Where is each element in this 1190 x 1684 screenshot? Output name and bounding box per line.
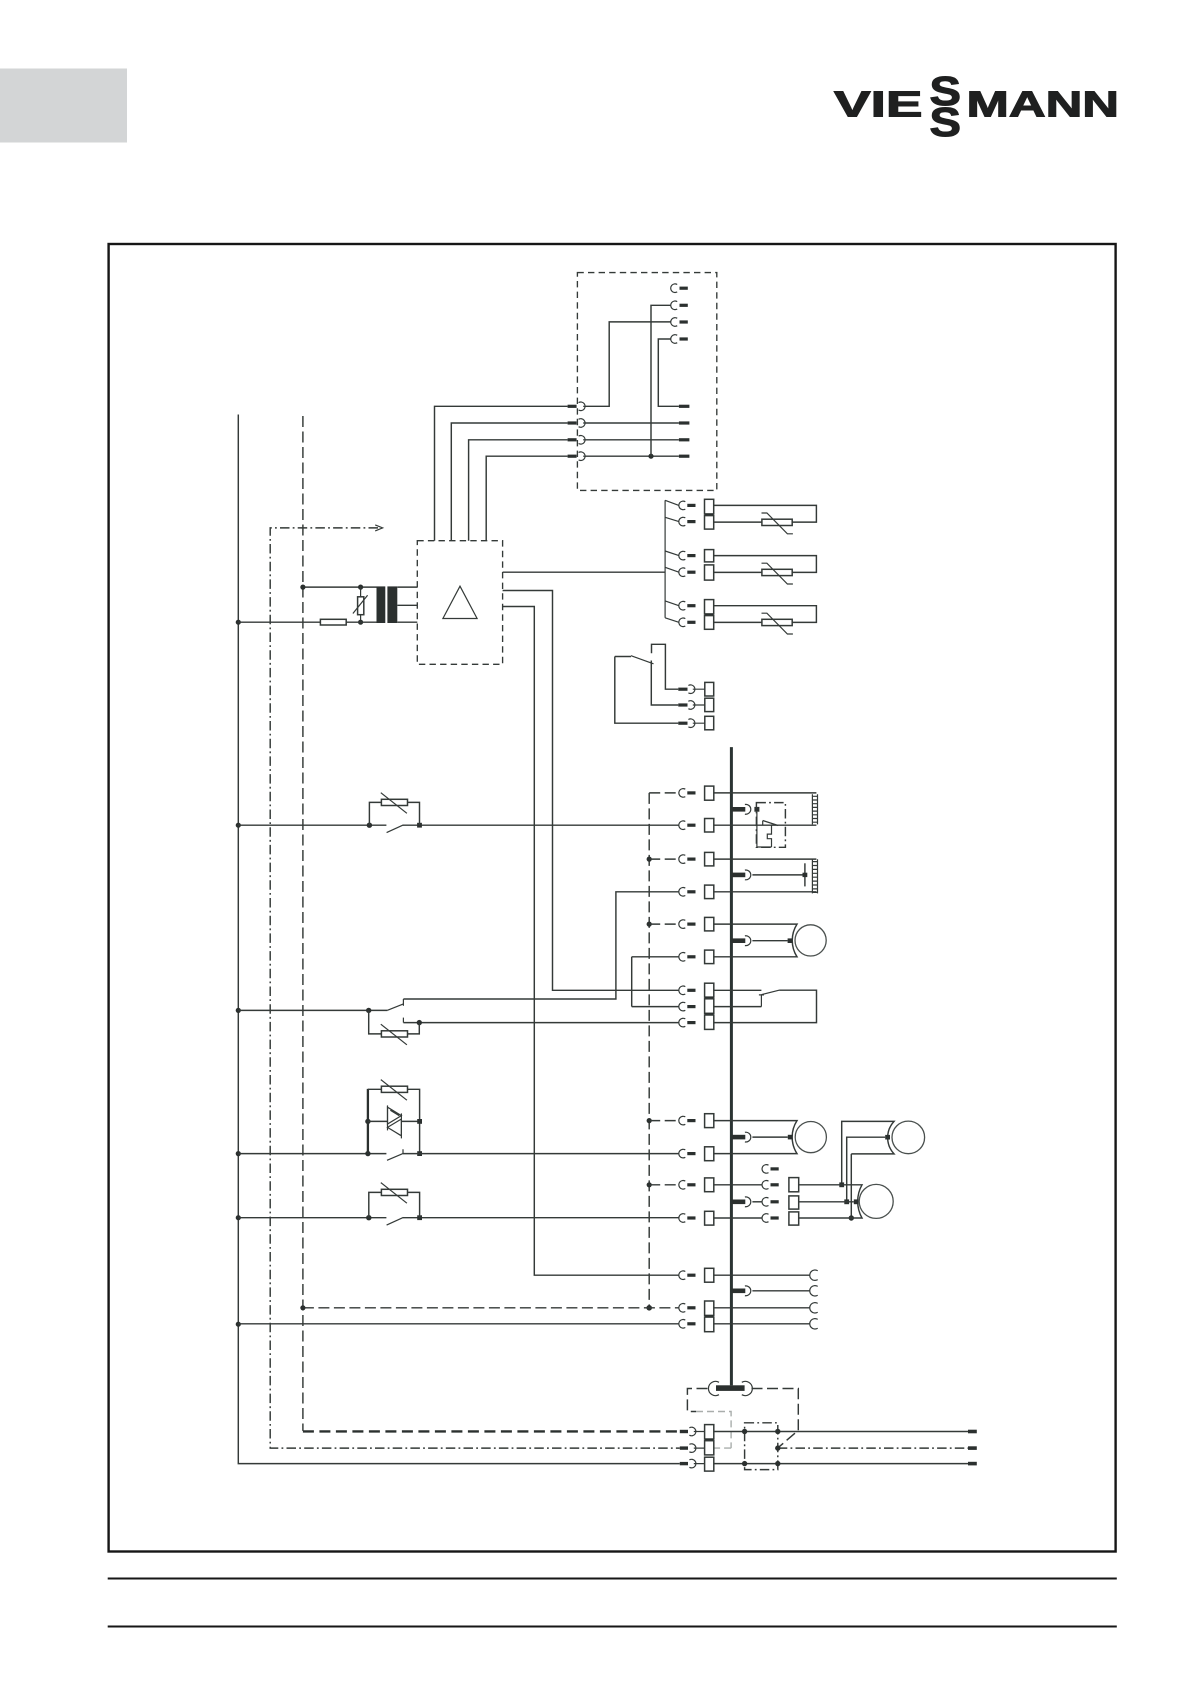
bus pin ignition (732, 873, 746, 878)
node dashed col row A (647, 857, 652, 862)
S2 node (366, 1008, 371, 1013)
rowB terminal (705, 885, 714, 899)
svg-text:S: S (930, 99, 962, 145)
gray accessory path (696, 1412, 731, 1449)
rowK socket right (762, 1198, 768, 1207)
rowD wire from loop (632, 957, 679, 1007)
bus end bar (716, 1385, 745, 1391)
relay pin 3 (678, 722, 687, 725)
wire transformer to control unit (397, 587, 417, 622)
sep FG (705, 1013, 714, 1015)
X8 top socket 1 (671, 284, 677, 293)
rowM dashed wire (303, 1307, 679, 1309)
rowR2 plug arc (810, 1286, 818, 1296)
fuse F1 (320, 619, 346, 625)
sensor socket 1b (679, 517, 685, 526)
rowC terminal (705, 917, 714, 931)
comm box node P right (775, 1429, 780, 1434)
sensor socket 2a (679, 551, 685, 560)
row3 terminal (705, 819, 714, 833)
rowN socket (679, 1320, 685, 1329)
rowK link wire (752, 1201, 762, 1203)
rowG terminal (705, 1015, 714, 1029)
control unit triangle (443, 586, 477, 618)
wire bus to burner motor (752, 1136, 787, 1138)
bus socket ignition (745, 870, 751, 880)
rowR1 plug arc (810, 1270, 818, 1280)
rowQ pin (680, 1446, 688, 1449)
node dashed col row H (647, 1118, 652, 1123)
bus socket rowR2 (745, 1286, 751, 1296)
rowJ junction square (839, 1182, 844, 1187)
pumpB junction square (854, 1199, 859, 1204)
wire bus to pump1 (752, 940, 787, 942)
sensor terminal 3b (705, 616, 714, 630)
wire stage2 contact to rowB (403, 892, 678, 999)
bus pin rowK (732, 1200, 746, 1205)
relay terminal 3 (705, 716, 714, 730)
main bus vertical (730, 747, 733, 1385)
rowA socket (679, 855, 685, 864)
sensor NTC1 diagonal (762, 513, 793, 534)
sensor socket 1a (679, 501, 685, 510)
rowJ dashed stub (649, 1184, 679, 1186)
X8 right pin 2 (679, 421, 690, 424)
triac varistor diagonal (381, 1080, 407, 1101)
node L1 row N (236, 1322, 241, 1327)
footer rule 2 (108, 1626, 1117, 1628)
S3 square right (417, 1215, 422, 1220)
S1 node left (367, 823, 372, 828)
bus socket limiter (745, 804, 751, 814)
rowM node left (300, 1305, 305, 1310)
node L1 burner switch (236, 823, 241, 828)
sensor terminal 1a (705, 499, 714, 514)
pump contact vertical (759, 995, 764, 1007)
spare socket (762, 1165, 768, 1174)
triac mid wire (368, 1120, 420, 1122)
pumpA mid feed (847, 1137, 886, 1202)
sensor socket 2b (679, 568, 685, 577)
node L1 stage switch (236, 1008, 241, 1013)
rowC socket (679, 920, 685, 929)
wire mains bottom (238, 621, 376, 623)
comm box node R right (775, 1461, 780, 1466)
rowH dashed stub (649, 1120, 679, 1122)
rowH socket (679, 1116, 685, 1125)
S3 varistor diagonal (381, 1183, 407, 1204)
wire to electrode (752, 874, 805, 876)
X8 wire socket2 straight (585, 422, 679, 424)
X8 top socket 2 (671, 301, 677, 310)
Viessmann logo text VIE (834, 68, 1119, 145)
S2 varistor body (381, 1031, 407, 1037)
burner motor circle (795, 1122, 826, 1153)
rowM socket (679, 1304, 685, 1313)
rowR end pin (968, 1462, 977, 1466)
S3 varistor loop (369, 1192, 420, 1217)
rowF terminal (705, 999, 714, 1014)
sensor NTC1 loop (714, 505, 817, 522)
sensor terminal 2a (705, 550, 714, 562)
rowM wire right (714, 1307, 810, 1309)
sensor NTC3 loop (714, 606, 817, 623)
ignition electrode (804, 863, 806, 886)
row3 socket (679, 821, 685, 830)
bus dash-dot left column with arrow (270, 528, 680, 1448)
pump contact lever (761, 990, 779, 995)
sensor terminal 2b (705, 565, 714, 580)
X8 left socket 1 (568, 405, 577, 408)
sensor terminal sep 1 (705, 514, 714, 516)
rowR terminal (705, 1457, 714, 1471)
rowR1 socket (679, 1271, 685, 1280)
S1 lever (387, 825, 404, 833)
sensor terminal 1b (705, 516, 714, 530)
limiter junction square (754, 807, 759, 812)
transformer T1 secondary bar (387, 586, 397, 623)
pump1 junction square (788, 938, 793, 943)
wire control to plug pin3 (469, 440, 568, 541)
X8 wire socket4 straight (585, 455, 679, 457)
rowG socket (679, 1018, 685, 1027)
rowK wire to pumpB (799, 1201, 854, 1203)
bus L1 solid left column (238, 415, 680, 1464)
relay terminal 2 (705, 698, 714, 711)
dashed wire bus end right (752, 1389, 799, 1448)
rowI wire (403, 1153, 679, 1155)
triac node left low (365, 1151, 370, 1156)
wire control to remote row (503, 607, 679, 1276)
S2 varistor diagonal (381, 1024, 407, 1045)
S2 upper contact (402, 999, 404, 1006)
triac switch lever (387, 1149, 403, 1160)
transformer T1 primary bar (377, 586, 386, 623)
rowN plug arc (810, 1319, 818, 1329)
rowE socket (679, 986, 685, 995)
rowR pin (680, 1462, 688, 1465)
rowR2 wire right (752, 1290, 809, 1292)
stage switch S2 wire (238, 1009, 387, 1011)
rowJ wire to pumpB (799, 1185, 862, 1218)
rowL socket right (762, 1214, 768, 1223)
sep EF (705, 997, 714, 999)
rowJ terminal right (789, 1178, 799, 1192)
node dashed col row M (646, 1305, 652, 1311)
diagram border frame (109, 244, 1116, 1552)
rowD socket (679, 953, 685, 962)
rowQ socket (689, 1444, 704, 1453)
X8 left socket 2 (568, 421, 577, 424)
rowP socket (689, 1427, 704, 1436)
bus dashed heavy row P (303, 1430, 680, 1432)
X8 top socket 4 (671, 335, 677, 344)
rowB socket (679, 888, 685, 897)
sensor NTC2 diagonal (762, 563, 793, 584)
bus pin limiter (732, 807, 746, 812)
triac bar right (400, 1113, 402, 1138)
wire control to pump contact E (503, 591, 679, 991)
relay K1 common (615, 657, 679, 724)
rowN wire (238, 1323, 678, 1325)
wire rowB to igniter bottom (714, 891, 817, 893)
rowR socket (689, 1459, 704, 1468)
rowP pin (680, 1430, 688, 1433)
rowL socket left (679, 1214, 685, 1223)
rowF socket (679, 1002, 685, 1011)
S1 node right (417, 823, 422, 828)
limiter switch tick (762, 821, 764, 825)
relay K1 throw mid (651, 661, 678, 706)
svg-text:VIE: VIE (834, 84, 923, 125)
connector X8 dashed box top (577, 273, 716, 491)
node dashed col transformer (300, 585, 305, 590)
rowR1 wire right (714, 1274, 810, 1276)
sensor terminal 3a (705, 600, 714, 614)
pumpA vertical feed (842, 1121, 894, 1218)
node varistor top (358, 585, 363, 590)
rowR wire right (714, 1463, 968, 1465)
svg-text:MANN: MANN (967, 84, 1120, 125)
X8 top socket 3 (671, 318, 677, 327)
sensor socket 3b (679, 618, 685, 627)
X8 left socket 4 (568, 455, 577, 458)
node L1 pump switch (236, 1215, 241, 1220)
rowJ terminal left (705, 1178, 714, 1192)
sensor NTC2 loop (714, 556, 817, 573)
wire row1 to heater top (714, 792, 817, 794)
S2 lower wire rowG (403, 1022, 678, 1024)
limiter internal leg (757, 812, 772, 847)
S3 lever (387, 1217, 404, 1225)
pumpB motor circle (859, 1184, 893, 1218)
burner motor triac block wire (238, 1153, 386, 1155)
rowR1 terminal (705, 1268, 714, 1282)
bus socket rowK (745, 1197, 751, 1207)
rowQ terminal (705, 1441, 714, 1455)
sensor rail vertical (664, 500, 666, 618)
heater bar 1 (812, 794, 817, 824)
rowK junction square (844, 1199, 849, 1204)
bus socket pump1 (745, 936, 751, 946)
node dashed col row C (647, 922, 652, 927)
bus end socket left (708, 1381, 719, 1395)
rowP terminal (705, 1425, 714, 1439)
comm dash-dot box (745, 1423, 778, 1470)
X8 right pin 3 (679, 438, 690, 441)
arrow head (375, 525, 382, 531)
node L1 transformer (236, 620, 241, 625)
row1 socket (679, 789, 685, 798)
rowJ socket right (762, 1181, 768, 1190)
wire control to sensor rail (503, 571, 665, 573)
triac square mid (417, 1119, 422, 1124)
pump contact rowE wire (714, 989, 762, 991)
node dashed col row J (647, 1182, 652, 1187)
relay pin 2 (678, 703, 687, 706)
node varistor bottom (358, 620, 363, 625)
dashed wire bus end left (687, 1389, 707, 1412)
bus pin burner motor (732, 1135, 746, 1140)
row1 terminal (705, 786, 714, 800)
wire rowA to igniter top (714, 858, 817, 860)
wire mains top to transformer (303, 586, 376, 588)
triac left leg (367, 1089, 369, 1154)
wire control to plug pin4 (486, 456, 567, 541)
rowI terminal (705, 1147, 714, 1161)
relay K1 throw up hook (652, 644, 679, 689)
rowQ wire right (778, 1447, 968, 1449)
comm box node R left (742, 1461, 747, 1466)
X8 right pin 4 (679, 455, 690, 458)
rowD terminal (705, 950, 714, 964)
rowP end pin (968, 1430, 977, 1434)
wire control to plug pin1 (435, 406, 568, 540)
triac triangle up (388, 1107, 402, 1124)
S1 varistor diagonal (381, 793, 407, 814)
triac triangle down (388, 1119, 402, 1136)
X8 node socket4 (648, 454, 653, 459)
bus pin pump1 (732, 938, 746, 943)
bus dashed right column (648, 793, 650, 1308)
triac square low (417, 1151, 422, 1156)
sensor NTC2 body (762, 569, 792, 575)
S1 varistor loop (369, 802, 419, 825)
sensor NTC3 diagonal (762, 613, 793, 634)
rowH terminal (705, 1114, 714, 1128)
rowJ wire crossing bus (714, 1184, 762, 1186)
triac bar left (387, 1105, 389, 1130)
wire row3 through limiter box to heater bottom (714, 824, 817, 826)
varistor R1 vertical (360, 587, 362, 622)
rowM plug arc (810, 1303, 818, 1313)
rowL junction dot (849, 1215, 854, 1220)
pumpA motor circle (892, 1121, 925, 1154)
rowN terminal (705, 1317, 714, 1332)
S1 varistor body (381, 799, 407, 805)
node L1 triac row (236, 1151, 241, 1156)
pump1 motor circle (795, 925, 826, 956)
rowI socket (679, 1149, 685, 1158)
S2 varistor loop (369, 1010, 420, 1034)
X8 wire socket1 to top3 (585, 322, 671, 406)
X8 wire socket3 straight (585, 439, 679, 441)
relay K1 lever (631, 656, 654, 664)
bus pin rowR2 (732, 1289, 746, 1294)
X8 wire top4 branch (658, 339, 679, 406)
S2 node lower (417, 1020, 422, 1025)
burner motor junction square (788, 1135, 793, 1140)
rowL terminal left (705, 1211, 714, 1225)
rowL terminal right (789, 1212, 799, 1225)
triac node left mid (365, 1119, 370, 1124)
row1 dashed stub (649, 792, 679, 794)
bus end socket right (742, 1381, 753, 1395)
burner motor bracket (714, 1121, 797, 1154)
rowA dashed stub (649, 858, 679, 860)
sensor NTC3 body (762, 619, 792, 625)
gray corner tab (0, 69, 127, 143)
wire control to plug pin2 (451, 423, 567, 541)
rowA terminal (705, 852, 714, 866)
X8 left socket 3 (568, 438, 577, 441)
comm box node P left (742, 1429, 747, 1434)
sensor rail taps (665, 500, 679, 622)
pump contact common loop rowG (714, 990, 817, 1022)
pump1 bracket wires (714, 924, 797, 957)
relay terminal 1 (705, 682, 714, 696)
triac varistor body (381, 1086, 407, 1092)
rowK terminal right (789, 1196, 799, 1209)
bus dashed left column (302, 416, 304, 1431)
rowM terminal (705, 1301, 714, 1315)
igniter bar 2 (812, 859, 817, 893)
X8 wire top2 branch (651, 305, 671, 456)
X8 right pin 1 (679, 405, 690, 408)
rowC dashed stub (649, 923, 679, 925)
S3 varistor body (381, 1189, 407, 1195)
pumpA junction square (885, 1135, 890, 1140)
footer rule 1 (108, 1578, 1117, 1580)
rowQ end pin (968, 1446, 977, 1450)
sensor socket 3a (679, 601, 685, 610)
triac varistor loop top (368, 1089, 420, 1153)
rowN wire right (714, 1323, 810, 1325)
sensor terminal sep 3 (705, 614, 714, 616)
sep PQ (705, 1439, 714, 1441)
rowJ socket left (679, 1181, 685, 1190)
pump switch S3 wire (238, 1217, 678, 1219)
rowE terminal (705, 983, 714, 997)
bus socket burner motor (745, 1132, 751, 1142)
control unit U1 dashed box (417, 541, 502, 665)
limiter TR dash-dot box (756, 803, 785, 848)
electrode junction square (803, 873, 808, 877)
pump contact rowF wire (714, 1006, 762, 1008)
comm box node Q right (775, 1445, 780, 1450)
burner switch S1 wire (238, 824, 678, 826)
limiter switch lever (763, 821, 779, 826)
S2 lower contact (402, 1018, 404, 1023)
rowP wire right (714, 1431, 968, 1433)
S2 lever (387, 1004, 403, 1011)
sensor NTC1 body (762, 519, 792, 525)
S3 node left (366, 1215, 371, 1220)
rowL wire crossing bus (714, 1217, 762, 1219)
relay pin 1 (678, 688, 687, 691)
sep MN (705, 1315, 714, 1317)
